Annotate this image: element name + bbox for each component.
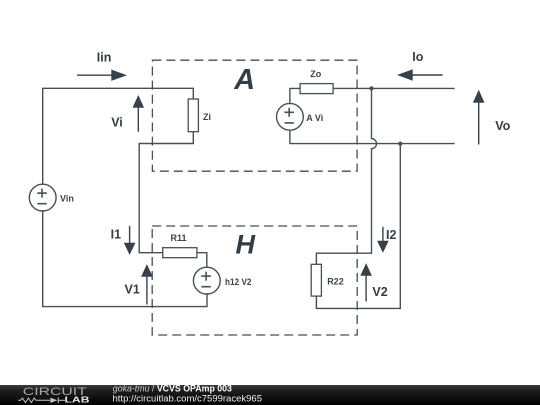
svg-text:I2: I2 [386, 228, 396, 242]
svg-text:http://circuitlab.com/c7599rac: http://circuitlab.com/c7599racek965 [113, 393, 263, 403]
svg-text:Zi: Zi [203, 112, 211, 122]
svg-text:Iin: Iin [97, 50, 112, 64]
svg-text:A: A [233, 64, 255, 96]
svg-text:Zo: Zo [310, 69, 321, 79]
svg-text:I1: I1 [111, 228, 121, 242]
svg-text:Vi: Vi [111, 116, 123, 130]
svg-text:H: H [236, 229, 256, 259]
svg-text:h12 V2: h12 V2 [225, 277, 252, 287]
svg-text:V1: V1 [125, 282, 140, 296]
svg-text:V2: V2 [372, 285, 387, 299]
svg-text:Vo: Vo [495, 119, 510, 133]
svg-text:Io: Io [412, 50, 423, 64]
svg-text:goka-tmu / VCVS OPAmp 003: goka-tmu / VCVS OPAmp 003 [113, 383, 232, 393]
svg-text:R22: R22 [327, 277, 344, 287]
svg-text:A Vi: A Vi [306, 113, 323, 123]
svg-text:Vin: Vin [60, 194, 74, 204]
svg-text:LAB: LAB [65, 396, 91, 405]
svg-text:R11: R11 [171, 233, 187, 243]
